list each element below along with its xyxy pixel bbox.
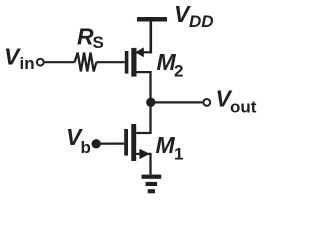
M1 channel bar <box>131 124 136 161</box>
wire M1 source to ground <box>149 154 151 175</box>
wire VDD to M2 source <box>150 22 153 54</box>
M2 channel bar <box>131 48 136 77</box>
M1 top lead (drain) <box>136 132 151 134</box>
svg-text:in: in <box>20 54 35 73</box>
transistor M2 (PMOS, source follower top device) <box>125 47 152 76</box>
resistor RS <box>75 53 97 72</box>
svg-text:out: out <box>230 98 257 117</box>
terminal Vout (open circle) <box>203 99 210 106</box>
label Vout <box>216 86 257 117</box>
wire node to Vout terminal <box>151 101 203 103</box>
terminal Vb (filled dot) <box>92 139 101 148</box>
svg-text:2: 2 <box>174 62 183 81</box>
wire node down to M1 drain <box>149 102 151 134</box>
label VDD <box>174 1 214 31</box>
svg-text:R: R <box>77 23 94 49</box>
terminal Vin (open circle) <box>37 59 44 66</box>
svg-text:DD: DD <box>189 12 214 31</box>
ground <box>142 175 162 194</box>
wire Vb to M1 gate <box>96 143 124 145</box>
svg-text:S: S <box>93 33 104 52</box>
M2 top lead (source) <box>137 51 152 53</box>
node output junction dot <box>146 98 155 107</box>
wire resistor to M2 gate <box>96 61 124 63</box>
supply VDD bar <box>137 17 167 22</box>
M1 source arrow (points away from channel) <box>139 149 150 159</box>
svg-text:M: M <box>156 132 176 158</box>
transistor M1 (NMOS, current source) <box>124 124 151 161</box>
label Vin <box>4 44 35 74</box>
label RS <box>77 23 104 52</box>
svg-text:V: V <box>4 44 21 70</box>
svg-text:1: 1 <box>174 145 183 164</box>
svg-text:b: b <box>81 138 91 157</box>
M1 gate bar <box>124 129 128 156</box>
M2 source arrow (points into channel) <box>135 47 144 57</box>
label M1 <box>156 132 184 164</box>
M1 bottom lead (source) <box>136 153 151 155</box>
label M2 <box>157 49 184 81</box>
wire Vin terminal to resistor <box>45 61 75 63</box>
wire M2 drain down to output node <box>149 71 151 103</box>
label Vb <box>66 124 91 157</box>
M2 bottom lead (drain) <box>137 71 152 73</box>
M2 gate bar <box>125 51 129 74</box>
